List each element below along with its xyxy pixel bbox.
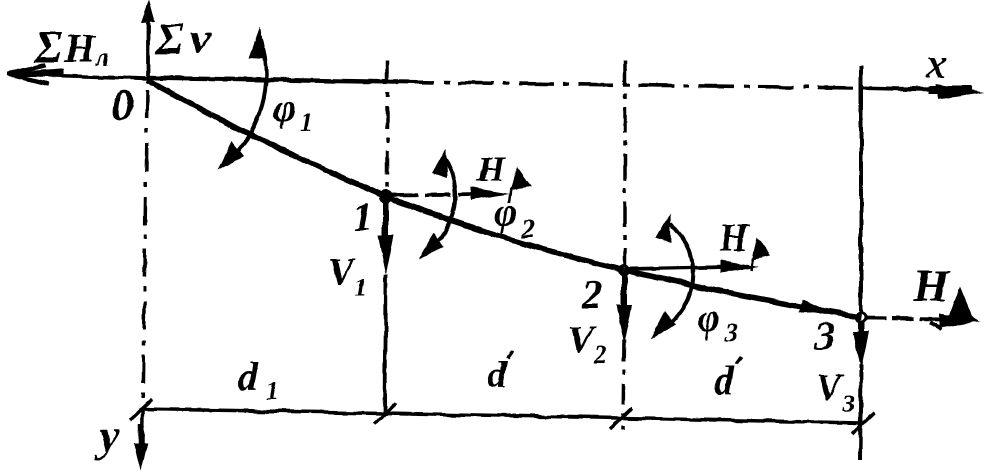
svg-text:1: 1 <box>354 273 367 302</box>
svg-text:2: 2 <box>521 214 535 243</box>
svg-text:d: d <box>714 358 735 403</box>
svg-text:V: V <box>816 367 844 409</box>
dimension tick at node 3 <box>852 413 874 434</box>
svg-text:1: 1 <box>353 195 373 240</box>
cable segment 1-2 <box>386 197 624 270</box>
svg-text:2: 2 <box>581 272 602 317</box>
H pennant at node 3 <box>946 287 980 323</box>
svg-text:H: H <box>718 217 750 259</box>
vertical line at node 3 <box>859 65 863 312</box>
X axis <box>147 78 958 90</box>
svg-text:2: 2 <box>593 340 607 369</box>
H arrow at node 1 <box>392 194 480 195</box>
X axis arrowhead <box>928 84 985 99</box>
dimension tick at node 1 <box>374 403 396 424</box>
node 1 <box>379 190 393 204</box>
svg-text:d: d <box>487 352 508 397</box>
dimension line <box>140 409 862 423</box>
svg-text:φ: φ <box>273 85 296 130</box>
svg-text:Σ: Σ <box>33 21 62 72</box>
H arrow at node 2 <box>628 267 728 269</box>
svg-text:Σ: Σ <box>155 14 183 63</box>
cable segment 0-1 <box>147 80 386 197</box>
svg-text:л: л <box>95 43 109 72</box>
sum V arrow (up) <box>146 12 150 79</box>
V1 force arrow <box>383 200 389 244</box>
y axis (down, dashed) <box>142 90 147 450</box>
H pennant at node 1 <box>510 167 531 190</box>
svg-text:H: H <box>476 149 506 189</box>
svg-text:3: 3 <box>841 389 855 418</box>
V3 force arrow <box>858 320 864 338</box>
y axis arrowhead <box>134 424 148 471</box>
svg-text:3: 3 <box>724 318 738 347</box>
svg-text:V: V <box>568 319 596 361</box>
vertical line at node 2 <box>623 60 627 265</box>
angle arc phi3 <box>661 223 693 330</box>
sum H arrow (left) <box>8 65 147 84</box>
node 2 <box>620 266 629 275</box>
V2 force arrow <box>621 272 627 314</box>
dimension tick at origin <box>130 399 152 420</box>
svg-text:φ: φ <box>697 295 720 340</box>
angle arc phi2 <box>428 157 455 251</box>
H arrow at node 3 <box>864 318 946 319</box>
svg-text:1: 1 <box>300 108 313 137</box>
dimension tick at node 2 <box>610 408 632 429</box>
H pennant at node 2 <box>752 237 771 260</box>
svg-text:v: v <box>190 12 211 63</box>
svg-text:H: H <box>912 260 950 311</box>
svg-text:1: 1 <box>266 377 279 406</box>
svg-text:H: H <box>63 26 97 71</box>
cable segment 2-3 <box>624 270 861 317</box>
arrowhead on cable segment 2-3 <box>799 299 831 318</box>
svg-text:φ: φ <box>494 189 517 234</box>
svg-text:0: 0 <box>111 80 134 131</box>
vertical line at node 1 <box>385 60 389 192</box>
svg-text:d: d <box>238 354 259 399</box>
angle arc phi1 <box>226 40 266 163</box>
svg-text:V: V <box>328 251 356 293</box>
svg-text:3: 3 <box>814 313 835 358</box>
svg-text:x: x <box>925 41 947 87</box>
node 3 <box>857 313 866 322</box>
